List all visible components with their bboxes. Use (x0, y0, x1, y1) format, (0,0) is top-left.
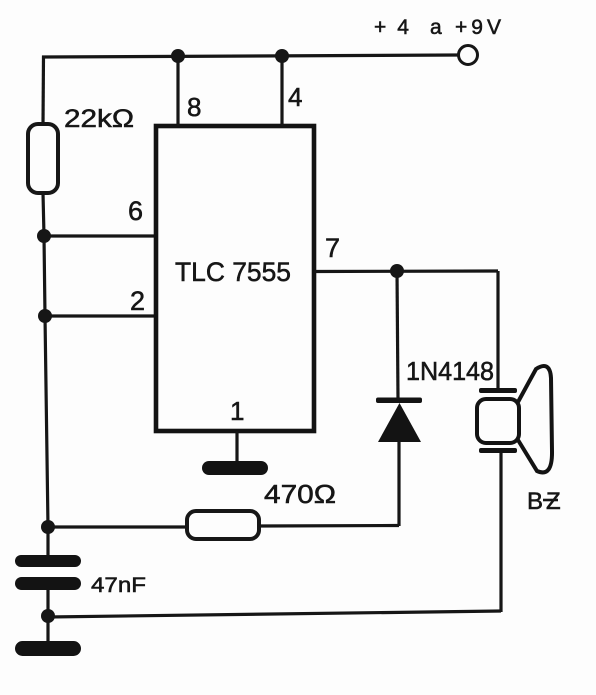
wire pin 4 (280, 56, 283, 127)
power terminal circle (459, 46, 478, 65)
wire pin 7 (314, 269, 498, 273)
svg-text:BZ: BZ (527, 488, 564, 515)
svg-text:2: 2 (130, 286, 145, 316)
resistor R2 470 body (187, 511, 259, 539)
svg-text:22kΩ: 22kΩ (64, 105, 134, 133)
wire down to speaker (496, 271, 499, 388)
node junction pin2 (38, 309, 52, 323)
wire junction to ground (46, 617, 49, 644)
diode D1 triangle (378, 403, 421, 442)
capacitor C1 47nF bottom plate (15, 577, 81, 590)
node junction bottom return (41, 609, 55, 623)
svg-text:1: 1 (230, 396, 244, 426)
ground bottom-left bar (15, 641, 81, 656)
svg-text:7: 7 (325, 233, 340, 263)
wire pin 1 (235, 431, 238, 463)
wire 470 right lead (259, 524, 399, 528)
wire diode anode down (397, 442, 400, 526)
label BZ crossbar on Z (543, 499, 558, 502)
op-amp U1 TLC7555 IC body (156, 126, 314, 431)
svg-text:8: 8 (187, 92, 201, 122)
wire top supply rail (42, 55, 459, 57)
svg-text:+4a+9V: +4a+9V (374, 16, 505, 39)
wire bottom return (48, 611, 501, 617)
node junction pin7 diode (390, 264, 404, 278)
svg-text:470Ω: 470Ω (264, 479, 336, 509)
wire pin 8 (176, 56, 179, 126)
node junction pin8 rail (171, 49, 185, 63)
svg-text:1N4148: 1N4148 (406, 356, 494, 386)
wire left rail lower (43, 193, 48, 557)
svg-text:4: 4 (288, 82, 302, 112)
node junction left rail 470 (41, 520, 55, 534)
wire pin 2 (45, 314, 156, 317)
svg-text:TLC 7555: TLC 7555 (175, 257, 291, 287)
node junction pin4 rail (275, 49, 289, 63)
wire 470 left lead (48, 525, 187, 528)
diode D1 1N4148 cathode bar (376, 398, 422, 404)
wire left rail upper (41, 56, 45, 126)
speaker BZ top plate (479, 388, 517, 393)
resistor R1 22k body (28, 124, 58, 193)
capacitor C1 47nF top plate (15, 555, 81, 567)
wire speaker bottom (499, 453, 502, 612)
speaker BZ horn cone (518, 366, 552, 472)
ground under IC bar (202, 461, 268, 475)
wire junction to diode cathode (397, 271, 398, 399)
wire pin 6 (44, 234, 156, 237)
svg-text:47nF: 47nF (91, 574, 146, 597)
node junction pin6 (37, 229, 51, 243)
speaker BZ bottom plate (479, 448, 517, 453)
svg-text:6: 6 (128, 196, 143, 226)
wire capacitor bottom to junction (46, 590, 49, 617)
speaker BZ body square (477, 399, 519, 443)
